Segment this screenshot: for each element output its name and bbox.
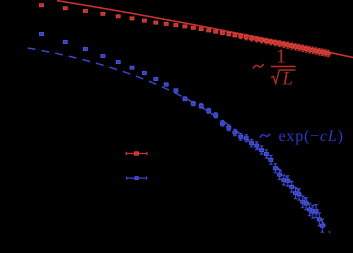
svg-text:1: 1	[276, 46, 286, 68]
red annotation text: ~ 1/sqrt(L)	[253, 46, 296, 90]
blue annotation text: ~ exp(-cL)	[260, 128, 344, 145]
red data error bars	[221, 31, 330, 57]
blue data series markers	[40, 33, 325, 228]
red fit line ~1/sqrt(L)	[57, 1, 353, 58]
legend blue errorbar sample	[126, 177, 147, 180]
legend red errorbar sample	[126, 152, 148, 155]
blue data error bars	[164, 83, 324, 232]
red data series markers	[40, 4, 331, 55]
svg-text:L: L	[282, 69, 293, 89]
svg-text:exp(−cL): exp(−cL)	[279, 128, 344, 145]
blue dashed fit line ~exp(-cL)	[28, 48, 330, 233]
